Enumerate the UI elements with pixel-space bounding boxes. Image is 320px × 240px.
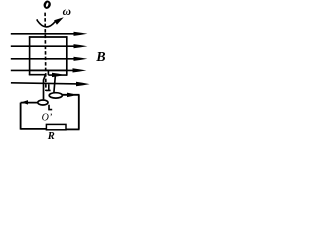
brush at ring 1 <box>46 84 51 90</box>
field line B2 <box>11 44 88 48</box>
field line B4 <box>11 68 87 72</box>
bottom wire right <box>66 128 80 130</box>
lead down to ring 1 <box>54 75 56 93</box>
circuit: rotating coil in magnetic field with resistor R <box>0 0 110 141</box>
field line B5 <box>11 82 90 86</box>
field line B1 <box>11 32 88 36</box>
coil left side <box>29 36 31 75</box>
field line B3 <box>11 57 88 61</box>
bottom wire left <box>21 128 47 130</box>
rotation arc <box>37 19 55 27</box>
rotation axis (dashed) <box>44 13 47 91</box>
label O (top of axis) <box>43 0 52 10</box>
svg-text:B: B <box>95 50 105 65</box>
coil right side <box>66 36 68 75</box>
svg-text:O’: O’ <box>42 113 53 124</box>
axle stub below ring 2 <box>49 105 52 110</box>
coil bottom wire with current arrow <box>48 74 67 76</box>
wire from ring 2 going left with current arrow <box>21 102 38 104</box>
current arrow on right wire <box>67 93 75 98</box>
resistor R box <box>46 124 66 129</box>
svg-text:R: R <box>47 131 55 141</box>
slip ring 1 <box>49 93 62 98</box>
rotation arrowhead <box>54 17 64 25</box>
lead from coil left side down to ring 2 <box>29 75 46 100</box>
right vertical wire <box>78 95 80 130</box>
short lead from coil bottom <box>47 70 49 75</box>
wire from ring 1 to right vertical <box>62 94 79 96</box>
svg-text:ω: ω <box>63 6 71 18</box>
coil top edge <box>29 36 68 38</box>
coil bottom edge <box>30 69 67 71</box>
slip ring 2 <box>38 100 48 105</box>
left vertical wire <box>20 103 22 130</box>
